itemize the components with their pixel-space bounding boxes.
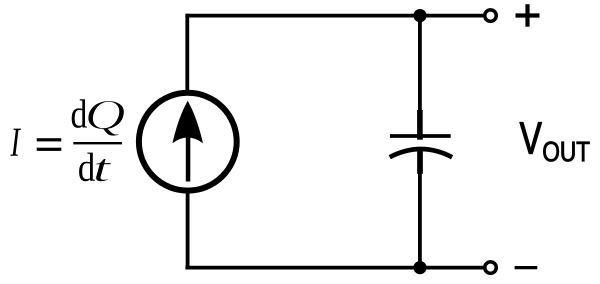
label dQ numerator d xyxy=(72,99,87,128)
capacitor C1 bottom lead thick xyxy=(417,150,423,174)
label dt denominator t xyxy=(96,159,112,182)
current source arrow shaft xyxy=(186,135,191,182)
wire bottom right to - terminal xyxy=(420,266,484,270)
fraction bar xyxy=(73,142,122,144)
label dQ numerator Q xyxy=(88,101,124,137)
wire bottom-left vertical xyxy=(186,191,190,270)
label minus xyxy=(515,266,538,269)
terminal + open circle xyxy=(485,10,497,22)
node top junction xyxy=(413,9,426,22)
node bottom junction xyxy=(413,261,426,274)
label VOUT subscript OUT xyxy=(543,142,589,162)
wire bottom horizontal xyxy=(185,266,420,270)
terminal - open circle xyxy=(485,262,497,274)
wire left vertical xyxy=(185,14,189,93)
current source U1 circle xyxy=(139,93,237,191)
wire capacitor branch bottom xyxy=(418,173,422,268)
label I = dQ/dt : I xyxy=(10,129,21,156)
wire top right to + terminal xyxy=(420,14,484,18)
capacitor C1 top plate xyxy=(390,134,451,138)
label + xyxy=(516,4,540,27)
wire capacitor branch top xyxy=(418,16,422,112)
capacitor C1 curved plate xyxy=(390,149,452,157)
label equals sign xyxy=(37,138,62,151)
wire top horizontal xyxy=(185,14,420,18)
current source arrow head xyxy=(172,101,203,144)
label dt denominator d xyxy=(79,153,95,182)
label VOUT V xyxy=(520,122,542,153)
capacitor C1 top lead thick xyxy=(417,110,423,140)
